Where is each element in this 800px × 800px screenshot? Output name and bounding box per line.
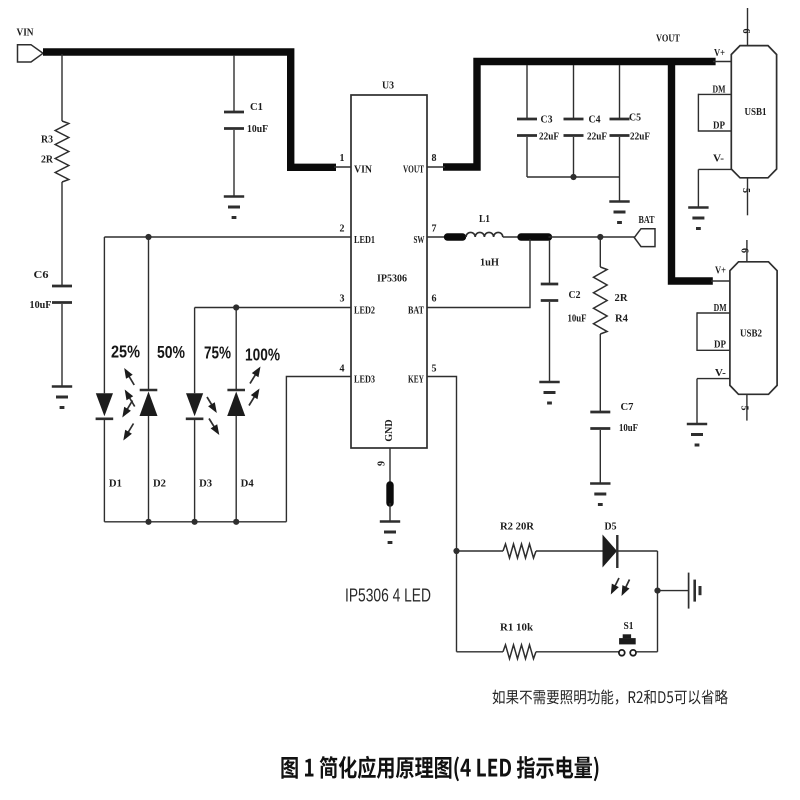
svg-text:D5: D5 — [605, 521, 617, 533]
wire BAT node thick segment — [521, 233, 549, 240]
emission arrows D1 — [122, 401, 133, 441]
wire SW thick segment — [448, 233, 463, 240]
svg-text:LED3: LED3 — [354, 374, 375, 386]
svg-text:VIN: VIN — [354, 164, 372, 176]
svg-text:3: 3 — [340, 294, 345, 305]
svg-text:4: 4 — [340, 364, 345, 375]
svg-text:BAT: BAT — [639, 214, 655, 226]
wire USB1 pin 5 lead — [747, 178, 749, 216]
capacitor C1 — [224, 112, 244, 129]
svg-text:5: 5 — [739, 406, 750, 411]
IC U3 IP5306 body — [351, 95, 427, 448]
wire USB2 DP stub — [697, 349, 730, 351]
wire BAT node to R4 — [599, 240, 601, 267]
svg-text:L1: L1 — [479, 213, 490, 225]
capacitor C6 — [52, 286, 72, 303]
emission arrows D3 — [207, 397, 219, 435]
junction rail/D2 — [145, 519, 151, 525]
svg-text:C1: C1 — [250, 101, 263, 113]
wire GND pin 9 lead — [389, 448, 391, 482]
svg-text:75%: 75% — [204, 343, 231, 363]
wire USB1 DM stub — [698, 93, 731, 95]
wire VOUT drop to USB2 V+ (thick) — [672, 58, 713, 281]
junction R4/BAT wire — [597, 234, 603, 240]
wire USB2 V- stub — [697, 378, 730, 380]
svg-text:9: 9 — [377, 461, 388, 466]
LED D1 — [96, 237, 114, 522]
svg-text:V+: V+ — [715, 265, 726, 277]
wire C6 to ground — [61, 304, 63, 387]
svg-text:IP5306 4 LED: IP5306 4 LED — [345, 585, 431, 606]
inductor L1 — [466, 232, 503, 237]
connector USB1 body — [731, 46, 776, 178]
svg-text:10uF: 10uF — [30, 299, 52, 311]
wire USB1 V+ stub — [713, 61, 731, 63]
svg-text:DP: DP — [714, 339, 726, 351]
wire C3-C5 ground rail — [527, 176, 620, 178]
svg-text:VIN: VIN — [17, 27, 34, 39]
svg-text:R2 20R: R2 20R — [500, 521, 535, 533]
resistor R3 — [55, 121, 69, 182]
emission arrows D2 — [124, 368, 135, 407]
svg-text:USB2: USB2 — [740, 328, 762, 340]
svg-text:22uF: 22uF — [587, 132, 607, 143]
junction KEY/R2 row — [453, 548, 459, 554]
svg-text:R4: R4 — [615, 313, 628, 325]
svg-text:DM: DM — [713, 84, 726, 96]
wire LED2 net (pin 3) — [195, 307, 351, 309]
wire USB2 pin 6 lead — [746, 240, 748, 262]
ground (USB2) — [687, 424, 707, 445]
svg-text:8: 8 — [432, 153, 437, 164]
svg-text:LED2: LED2 — [354, 305, 375, 317]
wire LED bottom rail — [104, 521, 286, 523]
svg-text:R3: R3 — [41, 134, 53, 146]
ground (USB1) — [688, 208, 708, 229]
LED D3 — [186, 308, 204, 522]
svg-text:U3: U3 — [382, 80, 394, 92]
wire VOUT to C5 — [619, 65, 621, 118]
junction rail/D4 — [233, 519, 239, 525]
wire C1 to ground — [233, 130, 235, 197]
wire BAT node to C2 — [549, 240, 551, 284]
wire R2 to D5 — [536, 550, 603, 552]
svg-text:LED1: LED1 — [354, 234, 375, 246]
wire C2 to ground — [549, 302, 551, 382]
wire VOUT (thick) pin 8 to USB1 V+ — [443, 62, 716, 168]
wire USB2 DM stub — [697, 312, 730, 314]
wire L1 to BAT node — [503, 236, 519, 238]
wire USB2 pin 5 lead — [746, 394, 748, 420]
switch S1 — [619, 634, 636, 655]
svg-text:C7: C7 — [621, 401, 634, 413]
ground (C1) — [224, 197, 244, 218]
svg-text:2R: 2R — [615, 292, 629, 304]
capacitor C3 — [517, 119, 537, 136]
ground (C7) — [590, 484, 610, 505]
note text: R2 and D5 optional if no flashlight — [493, 690, 728, 705]
connector USB2 body — [730, 262, 777, 395]
junction D4/LED2 — [233, 304, 239, 310]
svg-text:6: 6 — [432, 294, 437, 305]
svg-text:V-: V- — [715, 367, 726, 379]
svg-text:S1: S1 — [624, 620, 634, 632]
wire C5 to rail — [619, 137, 621, 177]
svg-text:SW: SW — [414, 234, 425, 246]
svg-text:22uF: 22uF — [630, 132, 650, 143]
svg-text:D4: D4 — [241, 479, 254, 490]
svg-text:50%: 50% — [157, 342, 185, 362]
wire R1 to S1 — [536, 651, 619, 653]
wire C7 to ground — [599, 430, 601, 484]
wire right rail down — [657, 551, 659, 652]
svg-text:GND: GND — [384, 419, 395, 441]
svg-text:C5: C5 — [629, 112, 641, 124]
svg-text:D1: D1 — [109, 479, 122, 490]
svg-text:5: 5 — [432, 364, 437, 375]
LED D2 — [140, 237, 158, 522]
wire VIN to R3 — [61, 54, 63, 121]
ground (C3-C5) — [609, 202, 629, 223]
wire LED3 net (pin 4) — [286, 377, 351, 522]
wire R3 to C6 — [61, 182, 63, 286]
wire USB1 V- to ground — [697, 169, 699, 207]
wire S1 to right rail — [636, 651, 658, 653]
svg-text:DP: DP — [713, 119, 725, 131]
svg-text:C4: C4 — [589, 114, 601, 126]
svg-text:D3: D3 — [199, 479, 212, 490]
junction D2/LED1 — [145, 234, 151, 240]
svg-text:5: 5 — [740, 188, 751, 193]
connector VIN — [18, 45, 44, 62]
svg-text:25%: 25% — [111, 342, 140, 362]
wire VIN to C1 — [233, 55, 235, 112]
wire GND to ground — [389, 503, 391, 522]
wire USB2 V+ stub — [711, 280, 730, 282]
wire USB1 DP stub — [698, 130, 731, 132]
wire C3 to rail — [526, 137, 528, 177]
capacitor C7 — [590, 412, 610, 429]
svg-text:2R: 2R — [41, 154, 54, 166]
svg-text:2: 2 — [340, 224, 345, 235]
resistor R2 — [503, 544, 536, 558]
svg-text:10uF: 10uF — [247, 123, 268, 135]
ground (IC GND) — [380, 522, 400, 543]
svg-text:R1 10k: R1 10k — [500, 622, 534, 634]
svg-text:1uH: 1uH — [480, 257, 499, 269]
wire VOUT to C3 — [526, 65, 528, 118]
wire to battery symbol — [658, 590, 689, 592]
svg-text:D2: D2 — [153, 479, 166, 490]
junction C4/rail — [570, 174, 576, 180]
wire pin 8 stub — [427, 166, 445, 168]
wire KEY to R2 — [457, 550, 504, 552]
wire pin 5 KEY — [427, 377, 457, 652]
wire C4 to rail — [573, 137, 575, 177]
svg-text:C2: C2 — [569, 289, 581, 301]
connector BAT — [634, 229, 655, 247]
svg-text:VOUT: VOUT — [656, 33, 681, 45]
wire pin 1 stub — [334, 166, 351, 168]
wire LED1 net (pin 2) — [104, 236, 351, 238]
wire VOUT to C4 — [573, 65, 575, 118]
svg-text:DM: DM — [714, 302, 727, 314]
wire KEY to R1 — [457, 651, 504, 653]
svg-text:100%: 100% — [245, 345, 280, 365]
capacitor C5 — [610, 119, 630, 136]
ground (C2) — [539, 382, 559, 403]
svg-text:10uF: 10uF — [568, 313, 587, 325]
svg-text:6: 6 — [739, 248, 750, 253]
LED D4 — [227, 308, 245, 522]
wire R4 to C7 — [599, 334, 601, 412]
svg-text:BAT: BAT — [408, 305, 424, 317]
svg-text:USB1: USB1 — [745, 106, 767, 118]
svg-text:22uF: 22uF — [539, 132, 559, 143]
wire GND thick segment — [386, 485, 393, 503]
wire USB1 DM-DP short — [697, 94, 699, 132]
svg-text:6: 6 — [740, 29, 751, 34]
emission arrows D5 — [611, 578, 630, 596]
resistor R4 — [594, 267, 608, 334]
svg-text:C6: C6 — [34, 269, 50, 281]
caption: figure 1 simplified application schematic — [281, 756, 598, 782]
wire USB1 pin 6 lead — [747, 8, 749, 46]
ground (C6) — [52, 387, 72, 408]
wire D5 to right rail — [617, 550, 657, 552]
emission arrows D4 — [249, 367, 261, 406]
svg-text:KEY: KEY — [408, 374, 424, 386]
capacitor C2 — [541, 284, 559, 301]
svg-text:1: 1 — [340, 153, 345, 164]
svg-text:V-: V- — [713, 153, 724, 165]
junction battery tap — [654, 588, 660, 594]
svg-text:VOUT: VOUT — [403, 164, 424, 176]
wire VIN (thick) from connector to pin 1 — [43, 52, 336, 167]
wire USB2 V- to ground — [696, 379, 698, 424]
LED D5 — [603, 535, 618, 569]
wire pin 7 stub — [427, 236, 447, 238]
wire USB1 V- stub — [698, 168, 731, 170]
svg-text:V+: V+ — [714, 47, 725, 59]
svg-text:7: 7 — [432, 224, 437, 235]
svg-text:IP5306: IP5306 — [377, 273, 407, 285]
wire BAT node to connector — [549, 236, 635, 238]
wire pin 6 BAT to node — [427, 239, 530, 308]
wire USB2 DM-DP short — [696, 312, 698, 351]
svg-text:C3: C3 — [541, 114, 553, 126]
resistor R1 — [503, 645, 536, 659]
battery / cell symbol (sideways ground) — [689, 573, 700, 609]
capacitor C4 — [564, 119, 584, 136]
svg-text:10uF: 10uF — [619, 422, 638, 434]
junction rail/D3 — [192, 519, 198, 525]
wire rail to ground — [619, 177, 621, 202]
